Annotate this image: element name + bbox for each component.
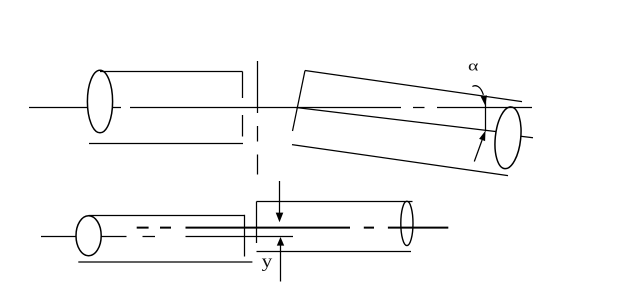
svg-text:α: α: [468, 57, 478, 74]
svg-text:y: y: [262, 251, 273, 271]
